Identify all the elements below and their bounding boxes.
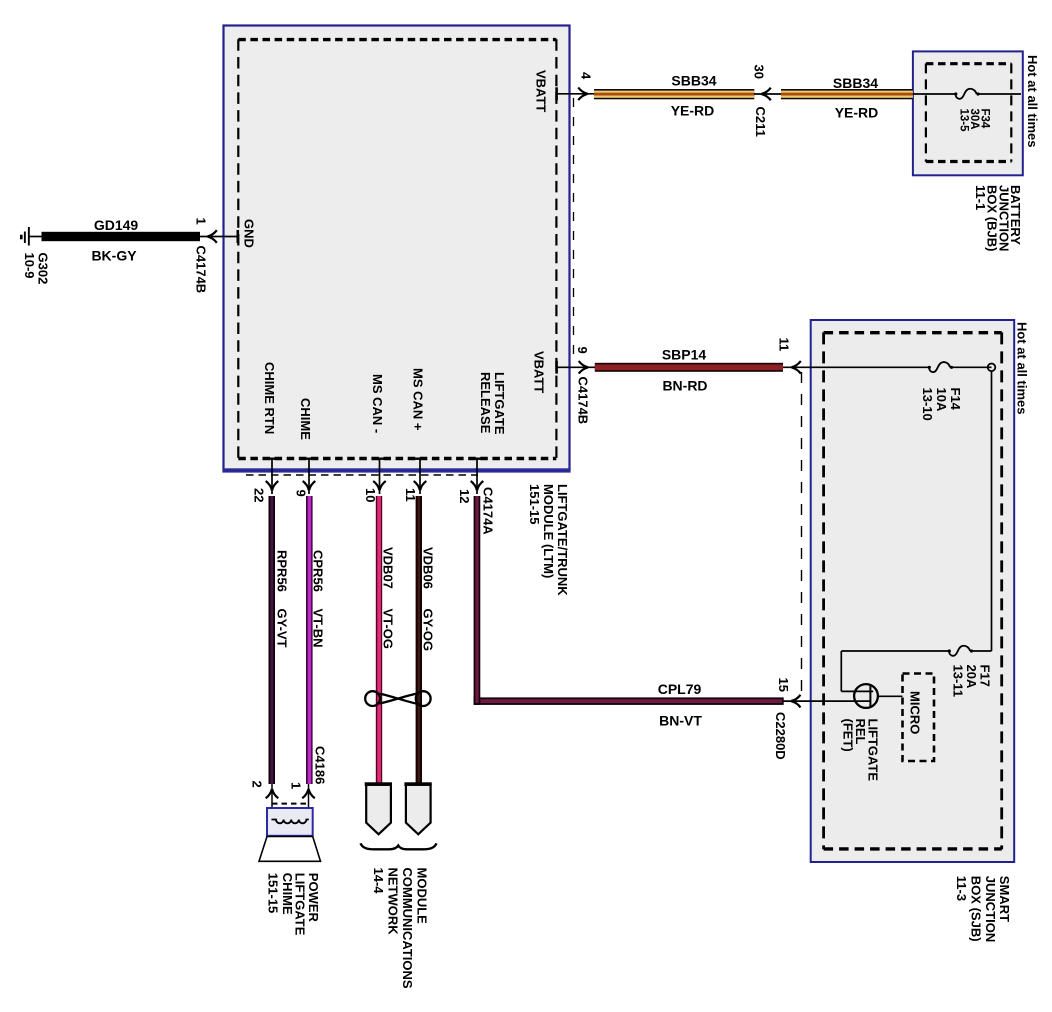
wire FET to MICRO: [878, 695, 903, 697]
svg-text:10A: 10A: [934, 388, 949, 412]
svg-text:YE-RD: YE-RD: [671, 103, 715, 119]
wire drop to FET: [840, 651, 842, 691]
smart junction box SJB outline: [811, 320, 1015, 862]
label fuse F14 rating: [920, 388, 963, 421]
svg-text:BOX (SJB): BOX (SJB): [969, 876, 984, 942]
svg-text:151-15: 151-15: [266, 873, 281, 913]
wire SBB34 segment 1: [594, 89, 754, 99]
wire pin 4 stub: [557, 93, 594, 95]
connector arrow SJB pin 11: [792, 361, 801, 374]
svg-text:C4174B: C4174B: [576, 377, 591, 425]
svg-text:CHIME: CHIME: [280, 873, 295, 915]
pin 10 tick: [373, 458, 386, 460]
wire GD149: [42, 232, 201, 241]
connector arrow pin 22: [266, 481, 279, 490]
pin 1 GND tick on module border: [237, 230, 240, 243]
svg-text:BK-GY: BK-GY: [91, 248, 137, 264]
wire CPL79 vertical: [474, 496, 481, 705]
svg-text:11-3: 11-3: [954, 876, 969, 901]
connector arrow pin 11: [414, 481, 427, 490]
wire pin 22 stub: [271, 459, 273, 494]
label LIFTGATE REL FET: [841, 719, 881, 782]
svg-text:CHIME RTN: CHIME RTN: [262, 362, 277, 434]
label wire VDB07: [381, 547, 396, 649]
svg-text:Hot at all times: Hot at all times: [1015, 322, 1030, 414]
svg-text:SMART: SMART: [997, 876, 1012, 922]
svg-text:F14: F14: [948, 388, 963, 411]
svg-text:MICRO: MICRO: [908, 691, 923, 734]
svg-text:11: 11: [777, 338, 792, 352]
label LIFTGATE RELEASE: [478, 372, 507, 435]
label BATTERY JUNCTION BOX: [973, 185, 1023, 251]
svg-text:11: 11: [403, 488, 418, 502]
micro dashed box: [903, 674, 935, 762]
svg-text:2: 2: [250, 781, 265, 788]
label wire RPR56: [275, 550, 290, 648]
wire GND stub: [200, 236, 238, 238]
svg-text:MODULE (LTM): MODULE (LTM): [541, 484, 556, 578]
wire chime pin 2 stub: [271, 784, 273, 820]
smart junction box SJB inner dashed border: [824, 332, 1002, 849]
svg-text:C211: C211: [753, 107, 768, 137]
pin 9 chime tick: [303, 458, 316, 460]
module LTM box outline: [222, 26, 570, 473]
svg-text:CPL79: CPL79: [658, 681, 702, 697]
svg-text:MODULE: MODULE: [415, 868, 430, 925]
label fuse F17 rating: [951, 665, 993, 698]
svg-text:GND: GND: [242, 219, 257, 248]
wire pin 12 stub: [476, 459, 478, 494]
svg-text:YE-RD: YE-RD: [835, 105, 879, 121]
svg-text:C2280D: C2280D: [773, 712, 788, 760]
svg-text:11-1: 11-1: [973, 185, 988, 210]
svg-text:LIFTGATE/TRUNK: LIFTGATE/TRUNK: [555, 484, 570, 596]
svg-text:VT-OG: VT-OG: [381, 609, 396, 649]
label POWER LIFTGATE CHIME: [266, 873, 322, 936]
wire inside BJB left of fuse: [913, 93, 956, 95]
svg-text:10-9: 10-9: [22, 253, 37, 279]
wire pin 15 into FET: [784, 700, 870, 702]
label fuse F34 rating: [957, 109, 990, 133]
connector C4174B dashed line: [573, 98, 575, 363]
wire chime pin 1 stub: [308, 784, 310, 820]
svg-text:NETWORK: NETWORK: [386, 868, 401, 936]
svg-text:VT-BN: VT-BN: [311, 609, 326, 648]
label ground G302: [22, 253, 51, 285]
svg-text:VBATT: VBATT: [532, 351, 547, 393]
fuse F14 symbol: [928, 362, 953, 372]
twisted pair symbol: [365, 691, 430, 706]
wire CPR56: [306, 496, 313, 784]
svg-text:BN-RD: BN-RD: [662, 378, 707, 394]
svg-text:C4186: C4186: [313, 746, 328, 784]
svg-text:GD149: GD149: [94, 217, 139, 233]
svg-text:VDB07: VDB07: [381, 547, 396, 589]
label wire CPR56: [311, 550, 326, 648]
fuse F17 symbol: [948, 646, 973, 656]
wire inside BJB right of fuse: [978, 93, 1021, 95]
connector arrow C211: [762, 88, 771, 101]
connector arrow pin 9 chime: [303, 481, 316, 490]
battery junction box BJB inner dashed border: [926, 63, 1011, 161]
connector arrow pin 4: [578, 88, 587, 101]
svg-text:C4174A: C4174A: [481, 487, 496, 535]
svg-text:9: 9: [575, 347, 590, 354]
battery junction box BJB outline: [913, 51, 1023, 175]
svg-text:9: 9: [294, 490, 309, 497]
wire SBP14: [595, 363, 783, 372]
wire from fuse F14 to node: [952, 366, 992, 368]
label wire VDB06: [421, 547, 436, 651]
wire at C211 junction: [754, 93, 781, 95]
wire SBP14 into SJB: [783, 366, 929, 368]
svg-text:C4174B: C4174B: [194, 246, 209, 294]
svg-text:VDB06: VDB06: [421, 547, 436, 589]
svg-text:22: 22: [252, 488, 267, 502]
wire SBB34 segment 2: [781, 89, 913, 99]
svg-text:COMMUNICATIONS: COMMUNICATIONS: [400, 868, 415, 989]
svg-text:JUNCTION: JUNCTION: [983, 876, 998, 942]
fuse F34 symbol: [954, 89, 979, 99]
svg-text:CHIME: CHIME: [298, 398, 313, 440]
brace under network arrows: [361, 843, 437, 849]
pin 22 tick: [266, 458, 279, 460]
svg-text:14-4: 14-4: [371, 868, 386, 895]
wire node down to F17 run: [991, 371, 993, 651]
svg-text:CPR56: CPR56: [311, 550, 326, 592]
svg-text:RPR56: RPR56: [275, 550, 290, 592]
wire chord into FET circle: [841, 690, 873, 692]
network arrow VDB06: [404, 782, 431, 834]
label MODULE COMMUNICATIONS NETWORK: [371, 868, 430, 989]
svg-text:LIFTGATE: LIFTGATE: [492, 372, 507, 435]
chime speaker body: [267, 808, 313, 836]
svg-text:151-15: 151-15: [527, 484, 542, 524]
module LTM inner dashed border: [238, 39, 556, 459]
label LIFTGATE TRUNK MODULE: [527, 484, 570, 596]
svg-text:4: 4: [579, 72, 594, 80]
connector arrow GND pin 1: [208, 230, 217, 243]
svg-text:GY-OG: GY-OG: [421, 609, 436, 652]
svg-text:30: 30: [752, 65, 767, 79]
transistor LIFTGATE REL FET circle: [854, 684, 878, 708]
svg-text:SBB34: SBB34: [833, 75, 878, 91]
svg-text:12: 12: [457, 489, 472, 503]
connector arrow chime pin 1: [302, 789, 315, 798]
svg-text:15: 15: [776, 678, 791, 692]
svg-text:Hot at all times: Hot at all times: [1025, 55, 1040, 147]
chime horn: [259, 837, 321, 862]
connector arrow pin 10: [373, 481, 386, 490]
connector arrow pin 12: [471, 481, 484, 490]
svg-text:1: 1: [194, 218, 209, 225]
chime coil: [272, 820, 309, 824]
connector arrow chime pin 2: [266, 789, 279, 798]
wire pin 9 stub: [557, 366, 595, 368]
node circle in SJB: [988, 364, 996, 372]
svg-text:10: 10: [363, 488, 378, 502]
network arrow VDB07: [365, 782, 392, 834]
ground symbol G302: [20, 227, 30, 246]
svg-text:13-11: 13-11: [951, 665, 966, 698]
wire CPL79 horizontal: [474, 697, 784, 705]
pin 9 VBATT tick on module border: [555, 361, 558, 374]
wire pin 10 stub: [379, 459, 381, 494]
pin 12 tick: [471, 458, 484, 460]
connector arrow SJB pin 15: [791, 695, 800, 708]
svg-text:(FET): (FET): [841, 719, 856, 752]
connector C2280D dashed line: [801, 372, 803, 698]
svg-text:MS CAN +: MS CAN +: [411, 368, 426, 431]
svg-text:1: 1: [289, 782, 304, 789]
wire F17 run right segment: [973, 650, 992, 652]
svg-text:13-10: 13-10: [920, 388, 935, 421]
svg-text:GY-VT: GY-VT: [275, 609, 290, 648]
connector C4186 dashed line: [272, 803, 310, 805]
svg-text:RELEASE: RELEASE: [478, 372, 493, 434]
wire VDB06: [416, 496, 422, 784]
ground lead wire: [29, 236, 42, 238]
wire pin 11 stub: [419, 459, 421, 494]
svg-text:BN-VT: BN-VT: [659, 713, 702, 729]
wire RPR56: [269, 496, 276, 784]
svg-text:VBATT: VBATT: [534, 70, 549, 112]
connector arrow pin 9: [579, 361, 588, 374]
svg-text:MS CAN -: MS CAN -: [370, 374, 385, 433]
label SMART JUNCTION BOX: [954, 876, 1012, 942]
wire pin 9 chime stub: [308, 459, 310, 494]
module bottom connector dashed line: [246, 474, 478, 476]
wire VDB07: [376, 496, 382, 784]
pin 4 tick on module border: [555, 87, 558, 100]
svg-text:SBB34: SBB34: [671, 73, 716, 89]
svg-text:13-5: 13-5: [957, 109, 969, 133]
pin 11 tick: [414, 458, 427, 460]
wire F17 run left segment: [841, 650, 949, 652]
svg-text:SBP14: SBP14: [662, 347, 707, 363]
